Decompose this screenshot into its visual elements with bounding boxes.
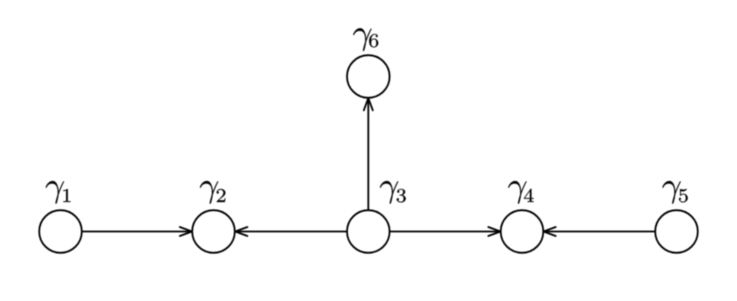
wire gamma3 to gamma2 xyxy=(236,231,347,233)
node gamma6 circle xyxy=(347,55,390,98)
node gamma1 circle xyxy=(39,210,82,253)
label gamma_1 xyxy=(46,181,71,204)
wire gamma5 to gamma4 xyxy=(544,231,655,233)
arrowhead into gamma6 bottom xyxy=(364,98,373,110)
wire gamma3 to gamma6 xyxy=(367,99,369,210)
arrowhead into gamma4 right side xyxy=(544,227,556,236)
node gamma3 circle xyxy=(347,210,390,253)
arrowhead into gamma2 left side xyxy=(180,227,192,236)
node gamma4 circle xyxy=(501,210,544,253)
arrowhead into gamma2 right side xyxy=(235,227,247,236)
label gamma_4 xyxy=(508,181,533,204)
label gamma_5 xyxy=(663,181,688,204)
label gamma_6 xyxy=(353,28,378,51)
wire gamma3 to gamma4 xyxy=(390,231,500,233)
node gamma5 circle xyxy=(655,210,698,253)
label gamma_3 xyxy=(380,181,406,204)
label gamma_2 xyxy=(200,181,225,204)
arrowhead into gamma4 left side xyxy=(488,227,500,236)
node gamma2 circle xyxy=(192,210,235,253)
wire gamma1 to gamma2 xyxy=(82,231,192,233)
